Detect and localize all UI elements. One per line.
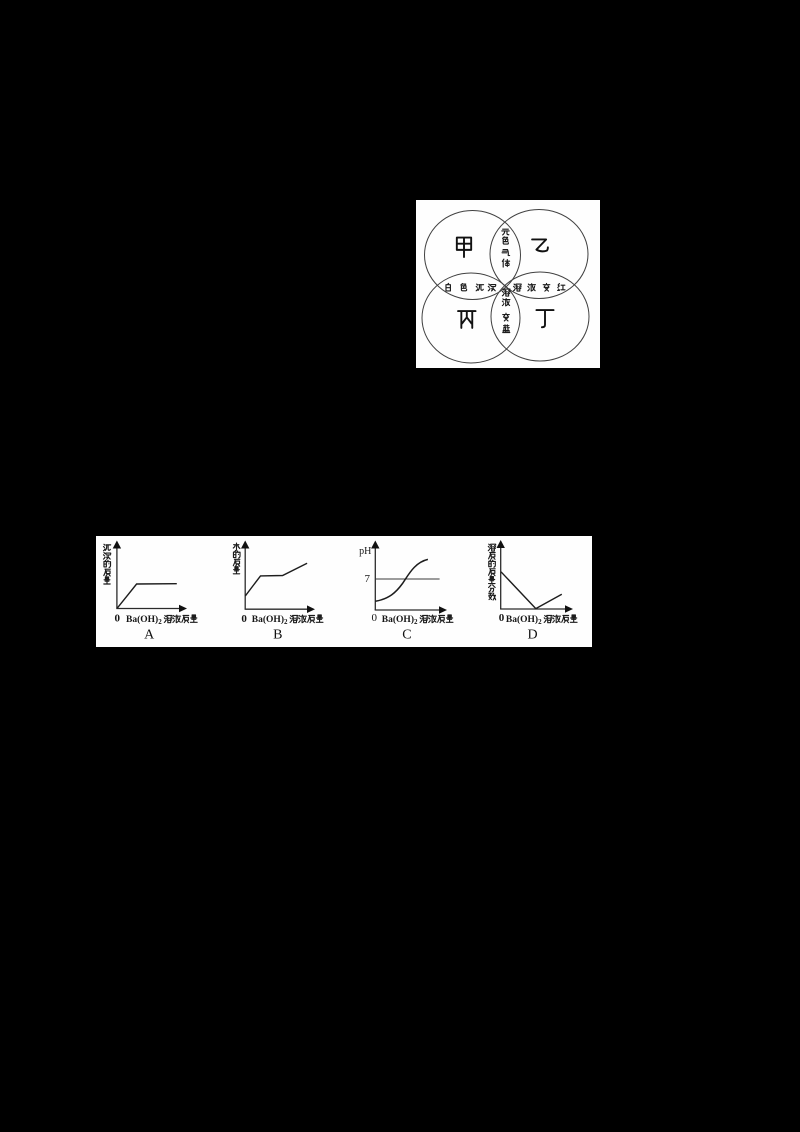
svg-text:0: 0 [371,612,377,624]
graph A: x-axis [116,608,182,610]
text 溶液变红 (right lens) [514,284,522,291]
svg-text:0: 0 [241,613,247,625]
graph B: x-axis [245,608,310,610]
graph D: x-axis [500,608,568,610]
svg-text:7: 7 [365,573,371,585]
white scan box: four-circle Venn diagram [416,200,600,368]
label 丙 [458,311,476,328]
label 乙 [532,239,548,251]
graph B: y-label 水的质量 [233,543,240,551]
text 溶液变蓝 (bottom lens, vertical) [502,289,510,296]
svg-text:D: D [528,627,538,642]
graph D: y-label 溶质的质量分数 [488,544,495,551]
svg-text:Ba(OH)2: Ba(OH)2 [126,614,162,626]
label 丁 [536,310,553,327]
svg-text:Ba(OH)2: Ba(OH)2 [252,614,288,626]
graph D: y-axis 溶质的质量分数 [500,546,502,609]
circle 乙 (top-right) [490,210,588,299]
svg-text:B: B [273,627,282,642]
graph D curve: fall to axis then rise [501,572,562,609]
svg-text:0: 0 [499,612,505,624]
svg-text:Ba(OH)2: Ba(OH)2 [506,614,542,626]
graph A curve: rise then plateau [117,584,177,609]
label 甲 [457,238,471,257]
graph C: horizontal line at pH 7 [376,578,440,580]
svg-text:A: A [144,627,155,642]
graph C: S curve [375,559,428,601]
circle 丙 (bottom-left) [422,273,520,363]
graph A: y-label 沉淀的质量 [103,544,110,551]
svg-text:C: C [402,627,411,642]
white scan box: four answer graphs A-D [96,536,592,647]
graph C: x-axis [375,609,442,611]
svg-text:pH: pH [359,546,371,557]
circle 甲 (top-left) [425,211,521,300]
text 无色气体 (top lens, vertical) [502,229,509,235]
text 白色沉淀 (left lens) [446,283,450,291]
circle 丁 (bottom-right) [491,272,589,361]
graph B: y-axis 水的质量 [244,547,246,610]
svg-text:0: 0 [115,612,121,624]
graph B curve: rise, plateau, rise [245,563,307,596]
graph C: y-axis pH [374,547,376,611]
graph A: y-axis 沉淀的质量 [116,547,118,609]
svg-text:Ba(OH)2: Ba(OH)2 [382,614,418,626]
